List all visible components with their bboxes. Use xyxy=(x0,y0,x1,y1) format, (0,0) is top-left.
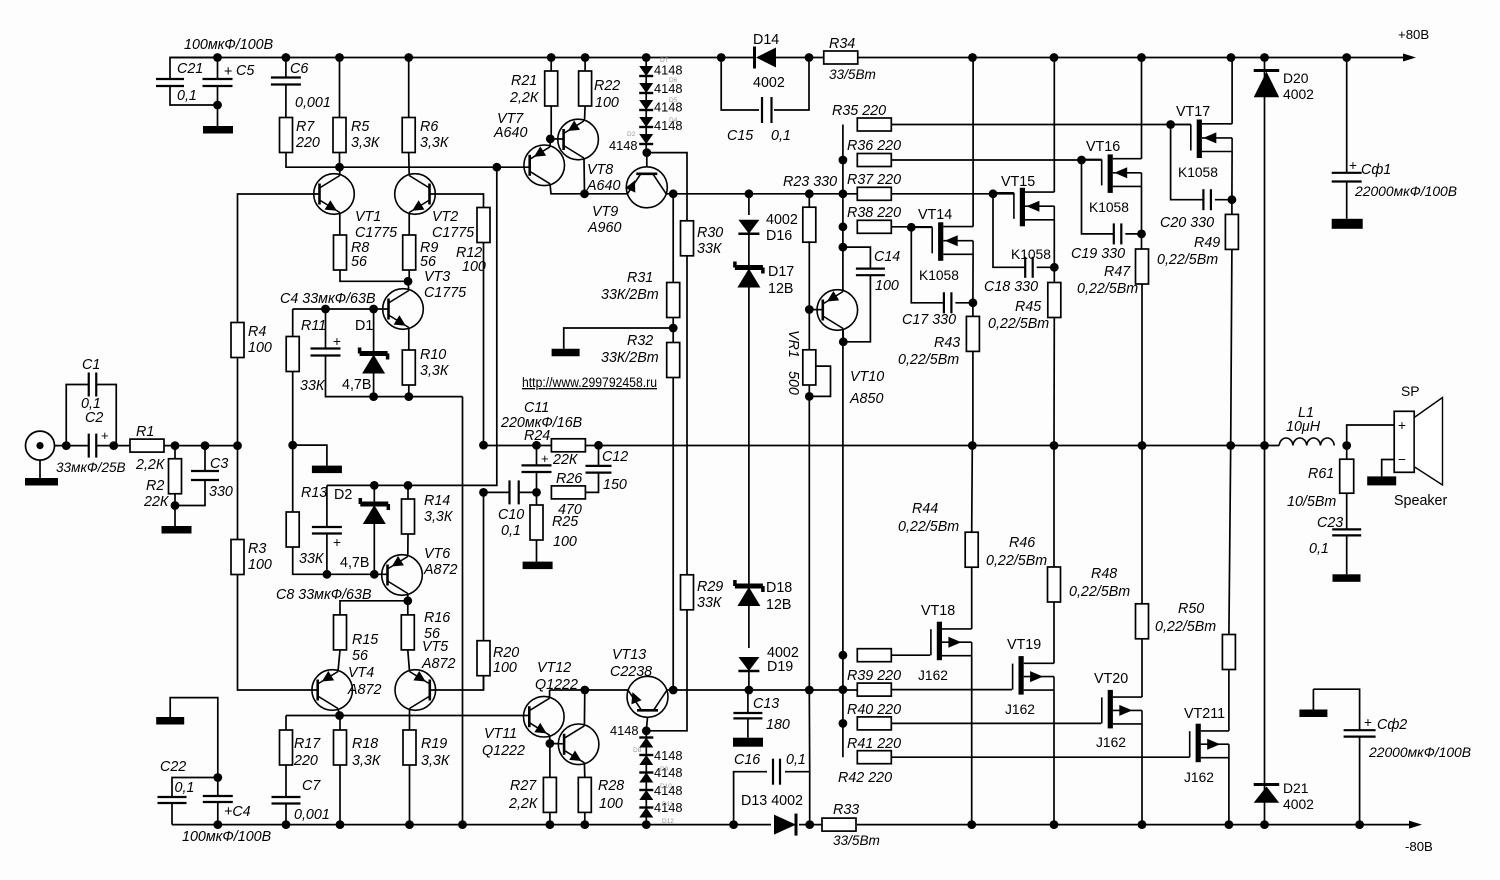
resistor R36 xyxy=(857,154,891,167)
svg-text:R7: R7 xyxy=(296,119,315,135)
input connector xyxy=(26,431,55,460)
svg-text:R61: R61 xyxy=(1308,466,1334,482)
svg-text:+: + xyxy=(333,535,341,550)
resistor R19 xyxy=(403,730,416,765)
junction VT11 emitter xyxy=(546,739,555,748)
zener diode D1 xyxy=(373,309,375,354)
svg-text:C21: C21 xyxy=(177,61,203,77)
svg-text:22000мкФ/100В: 22000мкФ/100В xyxy=(1368,744,1471,760)
svg-text:150: 150 xyxy=(603,477,627,493)
resistor R11 on left rail xyxy=(292,309,294,337)
wire output line right portion xyxy=(972,445,1279,447)
wire VT13 collector right xyxy=(668,689,674,691)
svg-text:D2: D2 xyxy=(627,131,636,138)
svg-text:C3: C3 xyxy=(210,456,228,472)
wire gate bus lower xyxy=(842,329,844,758)
wire C10 line xyxy=(484,491,510,493)
junction VT17 source C20 xyxy=(1228,195,1237,204)
resistor R38 xyxy=(857,220,891,233)
junction feedback/output tap xyxy=(479,441,488,450)
svg-text:D12: D12 xyxy=(662,818,674,825)
svg-text:D9: D9 xyxy=(660,766,669,773)
svg-text:R29: R29 xyxy=(697,579,723,595)
wire VT16 drain up xyxy=(1141,58,1143,159)
resistor R61 xyxy=(1346,446,1348,460)
wire C2 to R1 xyxy=(96,445,130,447)
wire VT15 gate loop xyxy=(993,194,1025,267)
transistor VT17 K1058 xyxy=(1171,124,1191,126)
svg-text:VT10: VT10 xyxy=(850,369,884,385)
transistor VT20 J162 xyxy=(1101,697,1103,723)
resistor R9 xyxy=(403,235,416,270)
junction bus VT13 line R40 xyxy=(839,685,848,694)
svg-text:SP: SP xyxy=(1401,383,1420,399)
svg-text:J162: J162 xyxy=(918,668,948,683)
svg-text:C6: C6 xyxy=(290,61,308,77)
resistor R7 xyxy=(280,118,293,153)
svg-text:+: + xyxy=(1398,418,1406,433)
svg-text:33К/2Вт: 33К/2Вт xyxy=(601,350,659,366)
capacitor C3 xyxy=(204,446,206,471)
wire VR1 down to lower line xyxy=(808,385,810,690)
wire R1 to R4/R3 node xyxy=(164,445,238,447)
wire VT12 collector up xyxy=(583,690,585,726)
svg-text:R10: R10 xyxy=(420,347,446,363)
svg-text:VT1: VT1 xyxy=(355,209,381,225)
junction R22 rail xyxy=(581,53,590,62)
transistor VT19 J162 xyxy=(1012,664,1014,690)
wire VAS collector line xyxy=(550,689,628,691)
capacitor C6 xyxy=(285,58,287,78)
svg-text:R28: R28 xyxy=(598,778,624,794)
svg-text:0,1: 0,1 xyxy=(175,780,195,796)
diode 4148 top string #2 xyxy=(639,83,653,93)
junction C1 left xyxy=(62,441,71,450)
wire R48 to output xyxy=(1141,446,1143,604)
wire VT13 collector line right xyxy=(673,689,857,691)
wire R27 to rail xyxy=(549,812,551,824)
svg-text:C20 330: C20 330 xyxy=(1160,215,1214,231)
resistor R15 xyxy=(334,615,347,650)
diode 4148 bottom string #1 xyxy=(639,738,653,748)
svg-text:0,22/5Вт: 0,22/5Вт xyxy=(1077,281,1138,297)
svg-text:4002: 4002 xyxy=(766,212,798,228)
wire R13 bottom to VT6 base line xyxy=(293,547,388,574)
wire VT15 source down xyxy=(1053,220,1055,267)
junction VT10 base xyxy=(805,305,814,314)
junction R43 output xyxy=(968,441,977,450)
junction C3 top xyxy=(201,441,210,450)
wire VT19 drain up to R46 xyxy=(1053,602,1055,663)
wire VT10 collector down xyxy=(842,329,844,342)
resistor R12 xyxy=(477,208,490,243)
capacitor C12 xyxy=(598,445,600,466)
resistor R27 xyxy=(543,777,556,812)
wire R44 to output xyxy=(971,446,974,533)
junction VT19 source rail xyxy=(1050,820,1059,829)
capacitor Cf1 xyxy=(1346,58,1348,173)
resistor R29 xyxy=(681,575,694,610)
capacitor C4b electrolytic xyxy=(203,795,233,797)
resistor R21 xyxy=(550,58,552,72)
speaker SP xyxy=(1394,411,1414,472)
svg-text:4148: 4148 xyxy=(609,138,637,153)
wire VT13 base down xyxy=(646,717,647,731)
wire VT18 drain up to R44 xyxy=(971,567,973,629)
junction C5 bottom xyxy=(213,101,222,110)
svg-text:J162: J162 xyxy=(1096,735,1126,750)
svg-text:R41 220: R41 220 xyxy=(847,736,901,752)
wire VT10 emitter up bus xyxy=(842,289,844,292)
transistor VT6 xyxy=(382,555,423,596)
junction VT3 collector xyxy=(404,277,413,286)
svg-text:Сф1: Сф1 xyxy=(1361,162,1391,178)
svg-text:180: 180 xyxy=(766,717,790,733)
svg-text:D6: D6 xyxy=(669,77,678,84)
ground C22 block xyxy=(170,698,218,778)
svg-text:R18: R18 xyxy=(352,736,378,752)
node -80V rail end arrow xyxy=(1409,821,1422,829)
svg-text:56: 56 xyxy=(351,254,367,270)
svg-text:100: 100 xyxy=(462,259,486,275)
diode 4148 top string #3 xyxy=(639,100,653,110)
svg-text:Сф2: Сф2 xyxy=(1377,717,1407,733)
wire R4 top to VT1 base xyxy=(238,194,320,323)
junction VT15 drain rail xyxy=(1050,53,1059,62)
wire R30 bottom crossing to R29 xyxy=(686,256,688,575)
junction C4 top xyxy=(321,305,330,314)
svg-text:R30: R30 xyxy=(697,225,723,241)
svg-text:0,22/5Вт: 0,22/5Вт xyxy=(1157,252,1218,268)
svg-text:VT211: VT211 xyxy=(1184,706,1225,722)
wire R46 to output xyxy=(1053,446,1055,568)
junction VT7e R21 VT8b xyxy=(546,135,555,144)
svg-text:33/5Вт: 33/5Вт xyxy=(833,833,880,848)
wire VT9 collector right xyxy=(667,193,674,195)
junction bus R38 xyxy=(839,222,848,231)
junction VT14 source C17 xyxy=(969,298,978,307)
svg-text:R37 220: R37 220 xyxy=(847,172,901,188)
potentiometer VR1 xyxy=(808,310,810,350)
wire VT17 source down xyxy=(1231,152,1233,200)
wire R35 to VT17 gate xyxy=(891,124,1191,126)
svg-text:VT2: VT2 xyxy=(432,209,458,225)
junction VR1 bottom xyxy=(805,392,814,401)
svg-text:+80В: +80В xyxy=(1398,27,1429,42)
svg-text:0,22/5Вт: 0,22/5Вт xyxy=(1155,619,1216,635)
wire VT9 collector down xyxy=(672,194,674,283)
svg-text:D18: D18 xyxy=(766,580,792,596)
svg-text:D7: D7 xyxy=(660,57,669,64)
svg-text:22К: 22К xyxy=(143,494,170,510)
svg-text:33К: 33К xyxy=(300,378,326,394)
svg-text:100мкФ/100В: 100мкФ/100В xyxy=(184,37,274,53)
svg-text:VT17: VT17 xyxy=(1176,104,1210,120)
svg-text:А872: А872 xyxy=(423,562,457,578)
resistor R14 xyxy=(407,485,409,499)
capacitor C23 xyxy=(1346,493,1348,529)
svg-text:C1775: C1775 xyxy=(432,225,474,241)
wire VT1 emitter to R8 xyxy=(339,213,341,236)
svg-text:R11: R11 xyxy=(301,318,326,334)
ground below R2 xyxy=(174,506,176,527)
svg-text:2,2К: 2,2К xyxy=(135,457,166,473)
svg-text:C23: C23 xyxy=(1317,515,1343,531)
junction C16 left rail xyxy=(729,820,738,829)
svg-text:4002: 4002 xyxy=(1283,86,1314,102)
junction R45 output xyxy=(1050,441,1059,450)
resistor R16 xyxy=(401,615,414,650)
junction C8 bottom xyxy=(323,570,332,579)
svg-text:R35 220: R35 220 xyxy=(832,103,886,119)
junction D2 bottom xyxy=(370,570,379,579)
svg-text:D14: D14 xyxy=(753,32,779,48)
wire R20 bottom to VT5 base xyxy=(483,676,485,690)
wire VT8 collector down xyxy=(583,158,586,194)
junction D19 bottom line xyxy=(745,686,754,695)
svg-text:56: 56 xyxy=(352,648,368,664)
ground speaker xyxy=(1382,460,1395,477)
junction C10 left xyxy=(479,488,488,497)
capacitor C20 xyxy=(1202,189,1204,210)
transistor VT9 xyxy=(626,167,667,208)
wire R27 down xyxy=(549,744,551,778)
svg-text:4148: 4148 xyxy=(654,748,682,763)
svg-text:VT6: VT6 xyxy=(424,546,450,562)
zener D18 xyxy=(733,580,737,586)
svg-text:http://www.299792458.ru: http://www.299792458.ru xyxy=(522,375,657,390)
svg-text:C17 330: C17 330 xyxy=(902,312,956,328)
wire D19 bottom xyxy=(748,671,750,690)
svg-text:VR1: VR1 xyxy=(785,330,801,358)
junction VT17 gate xyxy=(1166,120,1175,129)
junction bottom string rail xyxy=(642,820,651,829)
svg-text:D10: D10 xyxy=(660,783,672,790)
svg-text:R32: R32 xyxy=(627,333,653,349)
svg-text:220мкФ/16В: 220мкФ/16В xyxy=(500,415,583,431)
capacitor C16 bypass loop xyxy=(734,772,767,825)
junction VT16 source C19 xyxy=(1137,230,1146,239)
svg-text:J162: J162 xyxy=(1184,770,1214,785)
svg-text:C18 330: C18 330 xyxy=(984,279,1038,295)
svg-text:VT14: VT14 xyxy=(918,207,952,223)
junction R23 top xyxy=(805,189,814,198)
ground R25 xyxy=(536,540,538,562)
wire gate bus upper xyxy=(842,125,844,292)
junction C15 left rail xyxy=(717,53,726,62)
svg-text:R6: R6 xyxy=(420,119,438,135)
junction VT211 source rail xyxy=(1225,820,1234,829)
junction R11/R13 mid xyxy=(288,441,297,450)
wire VT2 base to R12 xyxy=(430,194,484,208)
svg-text:2,2К: 2,2К xyxy=(508,796,539,812)
junction R10 bottom xyxy=(404,392,413,401)
junction C6 top xyxy=(282,53,291,62)
svg-text:C12: C12 xyxy=(602,449,628,465)
svg-text:3,3К: 3,3К xyxy=(420,135,450,151)
wire VT20 source down xyxy=(1141,724,1143,825)
wire D18 to D19 xyxy=(748,606,750,648)
svg-text:D21: D21 xyxy=(1283,780,1309,796)
svg-text:D16: D16 xyxy=(766,228,792,244)
svg-text:R44: R44 xyxy=(912,501,938,517)
junction R19 rail xyxy=(405,820,414,829)
wire R17 corner xyxy=(285,716,287,731)
svg-text:R40 220: R40 220 xyxy=(847,702,901,718)
svg-text:R20: R20 xyxy=(493,645,519,661)
junction C4b top xyxy=(213,773,222,782)
resistor R26 xyxy=(551,486,585,499)
wire R23 to VT10 base xyxy=(808,241,810,309)
resistor R48 xyxy=(1136,604,1149,639)
svg-text:VT18: VT18 xyxy=(921,603,955,619)
capacitor C4 electrolytic xyxy=(325,309,327,349)
resistor R47 xyxy=(1141,234,1143,249)
svg-text:VT4: VT4 xyxy=(348,665,374,681)
wire R49 to output xyxy=(1231,249,1232,445)
wire VT11 collector up xyxy=(549,690,551,698)
svg-text:R42 220: R42 220 xyxy=(838,770,892,786)
junction R2/C3 bottom xyxy=(171,501,180,510)
transistor VT12 xyxy=(558,724,599,765)
junction bus R41 xyxy=(839,719,848,728)
wire R38 to VT14 gate xyxy=(891,226,932,228)
transistor VT18 J162 xyxy=(930,629,932,655)
svg-text:C7: C7 xyxy=(302,778,321,794)
svg-text:100: 100 xyxy=(875,278,899,294)
svg-text:R14: R14 xyxy=(424,493,450,509)
junction VT20 source rail xyxy=(1138,820,1147,829)
svg-text:K1058: K1058 xyxy=(1089,200,1129,215)
svg-text:C22: C22 xyxy=(160,759,186,775)
svg-text:C15: C15 xyxy=(727,128,753,144)
svg-text:D1: D1 xyxy=(355,318,373,334)
svg-text:D11: D11 xyxy=(662,801,674,808)
wire to VT9 emitter xyxy=(585,193,628,195)
svg-text:+С4: +С4 xyxy=(224,804,251,820)
ground mid bias xyxy=(293,445,327,466)
svg-text:+: + xyxy=(1364,715,1372,730)
svg-text:А640: А640 xyxy=(493,125,527,141)
svg-text:+: + xyxy=(224,64,232,80)
resistor R1 xyxy=(130,439,164,452)
svg-text:R33: R33 xyxy=(833,802,859,818)
wire VR1 x line to C16 loop xyxy=(808,690,810,772)
wire VT3 base line xyxy=(293,308,389,310)
diode D21 xyxy=(1254,783,1280,786)
wire R5 bottom to line xyxy=(339,153,341,168)
junction VT12 collector xyxy=(580,686,589,695)
svg-text:0,1: 0,1 xyxy=(786,752,806,768)
resistor R10 xyxy=(402,350,415,385)
diode D13 xyxy=(774,815,796,835)
wire R41 to VT20 gate xyxy=(891,722,1101,724)
svg-text:R48: R48 xyxy=(1091,566,1117,582)
wire VT9 base up xyxy=(646,153,648,167)
svg-text:4002: 4002 xyxy=(753,75,785,91)
svg-text:C1775: C1775 xyxy=(355,225,397,241)
junction VT14 gate xyxy=(907,223,916,232)
resistor R22 xyxy=(584,58,586,72)
wire R39 to VT18 gate xyxy=(891,654,930,656)
capacitor C22 xyxy=(172,778,218,798)
junction C4b rail xyxy=(213,820,222,829)
svg-text:C16: C16 xyxy=(734,752,760,768)
svg-text:C19 330: C19 330 xyxy=(1071,246,1125,262)
svg-text:D19: D19 xyxy=(767,659,793,675)
svg-text:C4 33мкФ/63В: C4 33мкФ/63В xyxy=(280,291,376,307)
resistor R3 xyxy=(237,446,239,540)
junction C11 top xyxy=(532,441,541,450)
zener diode D2 xyxy=(373,485,375,504)
svg-text:+: + xyxy=(1349,158,1357,173)
junction C7 rail xyxy=(282,820,291,829)
svg-text:R49: R49 xyxy=(1194,235,1220,251)
junction VT8 collector xyxy=(580,189,589,198)
svg-text:3,3К: 3,3К xyxy=(424,509,454,525)
wire VT15 drain up xyxy=(1053,58,1055,193)
wire VT3 emitter to R10 xyxy=(408,328,410,351)
junction VT13 collector xyxy=(669,686,678,695)
junction C16 right rail xyxy=(805,820,814,829)
wire D16 to D17 xyxy=(748,234,750,266)
capacitor C14 xyxy=(843,247,871,269)
svg-text:А850: А850 xyxy=(849,391,883,407)
resistor R13 on left rail xyxy=(292,445,294,512)
svg-text:R45: R45 xyxy=(1015,299,1041,315)
junction R21 rail xyxy=(547,53,556,62)
wire R2 bottom xyxy=(174,494,176,506)
svg-text:22К: 22К xyxy=(552,452,579,468)
wire R22 to VT8 emitter xyxy=(584,106,587,121)
transistor VT8 xyxy=(558,119,599,160)
wire VT12 emitter to R28 xyxy=(583,763,585,778)
capacitor C21 xyxy=(170,58,218,79)
junction C12 top xyxy=(594,441,603,450)
diode D20 xyxy=(1254,69,1280,72)
svg-text:K1058: K1058 xyxy=(919,268,959,283)
svg-text:0,1: 0,1 xyxy=(177,88,197,104)
svg-text:10/5Вт: 10/5Вт xyxy=(1287,494,1336,510)
svg-text:А640: А640 xyxy=(586,178,620,194)
capacitor C17 xyxy=(943,292,945,313)
wire catch diode bus xyxy=(1264,58,1266,446)
svg-text:VT15: VT15 xyxy=(1001,174,1035,190)
svg-text:VT5: VT5 xyxy=(422,639,448,655)
svg-text:3,3К: 3,3К xyxy=(421,753,451,769)
svg-text:K1058: K1058 xyxy=(1011,247,1051,262)
capacitor C19 xyxy=(1113,223,1115,244)
svg-text:56: 56 xyxy=(420,254,436,270)
svg-text:C13: C13 xyxy=(753,696,779,712)
svg-text:4,7В: 4,7В xyxy=(340,555,369,571)
svg-text:R25: R25 xyxy=(552,514,578,530)
svg-text:R46: R46 xyxy=(1009,535,1035,551)
svg-text:C11: C11 xyxy=(524,400,549,416)
wire VT5 emitter to R16 xyxy=(408,650,410,672)
junction D1 bottom xyxy=(369,392,378,401)
wire diode string xyxy=(645,58,647,153)
svg-text:VT19: VT19 xyxy=(1007,637,1041,653)
svg-text:33/5Вт: 33/5Вт xyxy=(829,67,876,82)
junction R2 top xyxy=(171,441,180,450)
transistor VT5 xyxy=(395,670,436,711)
wire VT20 drain up to R48 xyxy=(1141,639,1143,697)
junction Cf2 rail xyxy=(1355,820,1364,829)
resistor R30 xyxy=(681,221,694,256)
resistor R28 xyxy=(578,777,591,812)
junction R47 output xyxy=(1138,441,1147,450)
